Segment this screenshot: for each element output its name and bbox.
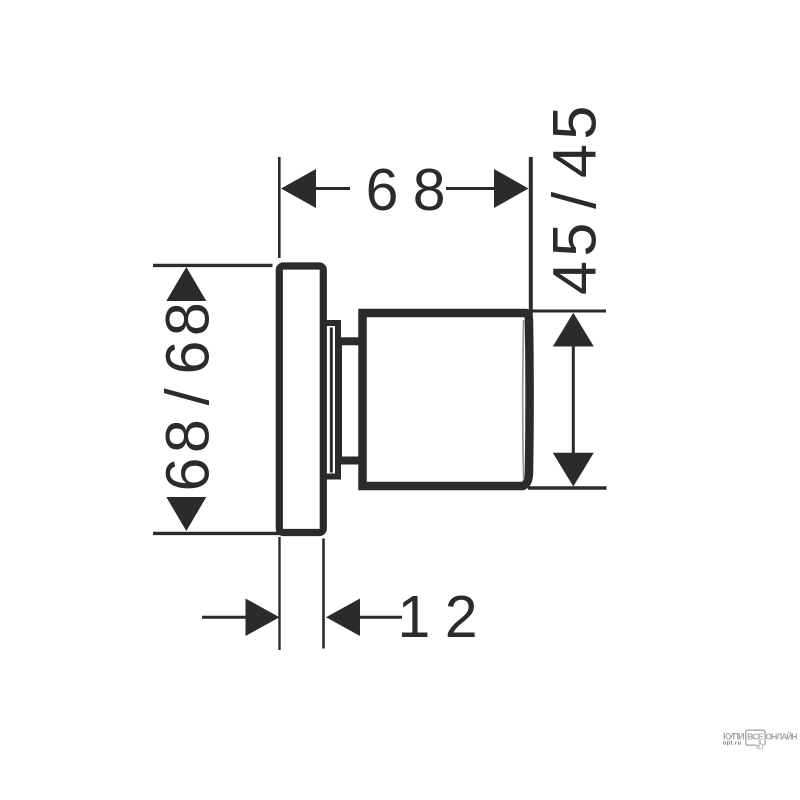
svg-text:68: 68	[366, 157, 460, 223]
svg-text:45/45: 45/45	[541, 101, 609, 295]
svg-text:68/68: 68/68	[153, 298, 221, 492]
svg-text:ВСЕ: ВСЕ	[747, 731, 764, 741]
svg-text:ОНЛАЙН: ОНЛАЙН	[766, 730, 798, 741]
svg-text:12: 12	[398, 584, 492, 650]
svg-text:opt.ru: opt.ru	[723, 740, 741, 746]
